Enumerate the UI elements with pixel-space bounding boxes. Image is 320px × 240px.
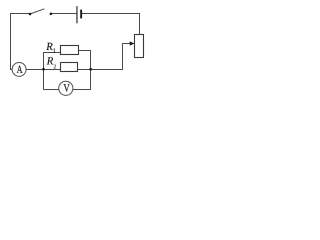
ammeter A letter	[17, 66, 23, 73]
wire voltmeter right riser	[90, 70, 92, 90]
wire rheostat wiper riser	[122, 43, 124, 70]
wire R1 left lead	[44, 52, 61, 54]
wire top from switch to battery	[51, 13, 77, 15]
resistor R1 box	[61, 46, 79, 55]
wire top-left horizontal	[10, 13, 30, 15]
wire voltmeter right lead	[73, 89, 91, 91]
wire wiper horizontal	[122, 43, 131, 45]
wire R1 branch left riser	[43, 52, 45, 70]
wire bottom main run	[26, 69, 123, 71]
wire R1 right lead	[79, 50, 92, 52]
voltmeter V circle	[59, 81, 73, 95]
label R2	[47, 57, 53, 64]
voltmeter V letter	[63, 84, 69, 92]
ammeter A circle	[12, 62, 26, 76]
wire voltmeter left lead	[43, 89, 59, 91]
node junction dot left	[42, 68, 45, 71]
rheostat box	[135, 35, 144, 58]
switch S1 left contact dot	[29, 13, 32, 16]
wire ammeter left stub	[10, 69, 12, 71]
switch S1 right contact dot	[50, 13, 53, 16]
resistor R2 box	[61, 63, 78, 72]
wire right vertical to rheostat	[139, 13, 141, 35]
wire right rail upper	[90, 50, 92, 70]
node junction dot right	[89, 68, 92, 71]
battery short thick plate (-)	[80, 10, 82, 19]
wire voltmeter left riser	[43, 70, 45, 90]
wire left vertical	[10, 13, 12, 70]
rheostat top stub	[139, 14, 141, 35]
switch S1 blade	[30, 9, 44, 14]
label R1	[46, 43, 52, 50]
rheostat wiper arrowhead	[130, 41, 135, 45]
battery long plate (+)	[76, 6, 77, 23]
wire top from battery to right corner	[82, 13, 140, 15]
